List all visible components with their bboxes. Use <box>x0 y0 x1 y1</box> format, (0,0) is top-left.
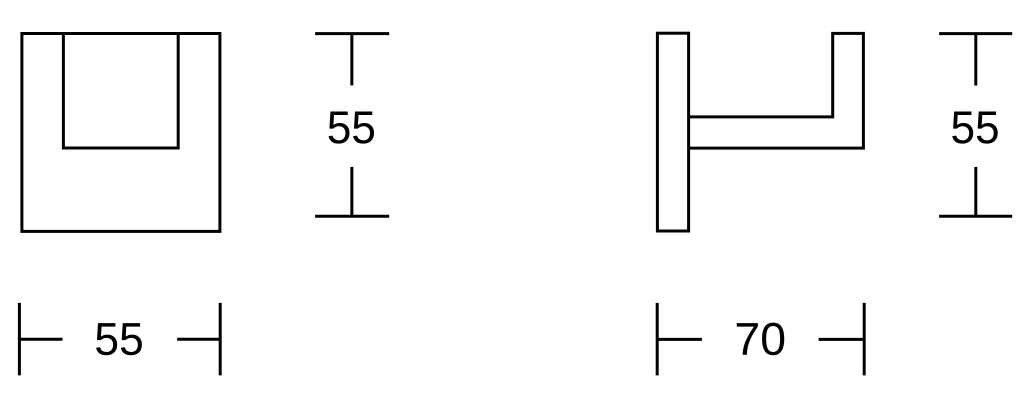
side view mounting plate <box>657 33 688 231</box>
height dimension left: upper extension line <box>350 34 353 86</box>
front view inner notch <box>63 34 178 149</box>
width dimension 55: right segment <box>177 338 220 341</box>
width dimension 70: left segment <box>657 338 702 341</box>
width dimension 70: right tick <box>863 303 866 376</box>
label 70 (bottom width) <box>737 323 785 356</box>
label 55 (left height) <box>329 112 375 144</box>
height dimension right: upper extension line <box>974 34 977 86</box>
width dimension 70: right segment <box>819 338 865 341</box>
height dimension left: lower extension line <box>350 167 353 216</box>
width dimension 55: left tick <box>18 303 21 376</box>
height dimension right: lower extension line <box>974 167 977 216</box>
side view hook arm <box>689 33 864 148</box>
width dimension 55: right tick <box>219 303 222 376</box>
height dimension right: top tick <box>939 32 1012 35</box>
width dimension 55: left segment <box>19 338 62 341</box>
front view outer square <box>22 34 220 232</box>
height dimension left: top tick <box>315 32 389 35</box>
width dimension 70: left tick <box>656 303 659 376</box>
label 55 (bottom width) <box>96 323 142 355</box>
height dimension left: bottom tick <box>315 215 389 218</box>
label 55 (right height) <box>952 112 998 144</box>
height dimension right: bottom tick <box>939 215 1012 218</box>
